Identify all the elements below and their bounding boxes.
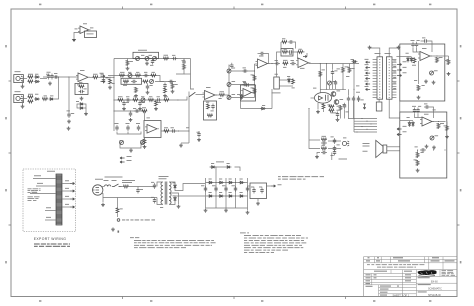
- label speck tone top row: [141, 54, 144, 57]
- export right arrow 2: [62, 190, 70, 192]
- label speck tone row2a: [128, 71, 131, 74]
- capacitor C56 dangling: [152, 59, 154, 65]
- resistor R8: [109, 79, 112, 85]
- wire row input bus: [43, 76, 69, 78]
- PA caps C33: [353, 96, 355, 102]
- resistor R55 below tube: [329, 109, 335, 112]
- ground rect rail3: [224, 209, 228, 213]
- capacitor C58 below row4: [123, 101, 125, 107]
- speaker network wires: [309, 139, 320, 141]
- filter cap C53: [247, 186, 249, 192]
- capacitor C17: [171, 130, 177, 132]
- pot VR11 (ch level 3): [227, 96, 231, 100]
- rect bottom wire: [206, 207, 248, 209]
- diode D10 on drive wire: [352, 61, 358, 63]
- diode D9 relay: [288, 78, 290, 84]
- resistor R38: [321, 138, 327, 141]
- relay label AL-990: [272, 92, 281, 95]
- label speck right lower: [407, 116, 410, 119]
- wire U2A output row: [161, 130, 189, 132]
- diode D15: [174, 184, 176, 190]
- diode D16: [174, 196, 176, 202]
- resistor R14: [123, 80, 129, 83]
- capacitor C4: [68, 112, 70, 118]
- export wiring subtitle line 1: [34, 244, 40, 245]
- capacitor C42: [423, 40, 429, 42]
- capacitor C46 on box top: [420, 149, 426, 151]
- filter box cap C54: [253, 188, 255, 194]
- wire J2 row joins input bus: [55, 77, 59, 99]
- resistor R30: [283, 62, 289, 65]
- connector CN2 pins: [389, 59, 390, 60]
- ground in lower box: [416, 169, 420, 173]
- capacitor C57 dangling: [147, 84, 149, 90]
- pot VR1: [136, 57, 140, 61]
- resistor R17 vertical: [164, 88, 167, 94]
- resistor R45: [446, 125, 449, 131]
- label speck U5 U6 row: [275, 59, 278, 62]
- fuse F1: [105, 185, 111, 187]
- diode D12: [411, 57, 413, 63]
- PA output bundle wire 2: [354, 120, 377, 122]
- resistor R3: [28, 96, 34, 99]
- channel arrows B: [101, 81, 106, 83]
- capacitor C22 in U3 box: [212, 104, 214, 110]
- level pot bus vertical: [228, 65, 230, 100]
- upper module arrows: [397, 63, 402, 65]
- diode D17: [210, 166, 216, 168]
- ground below R8: [108, 86, 112, 90]
- capacitor C29: [290, 63, 296, 65]
- op-amp U2A box: [144, 121, 161, 138]
- ground for J2: [21, 105, 25, 109]
- PA mid row wire: [320, 88, 346, 90]
- capacitor C10: [131, 81, 137, 83]
- filter cap C49: [205, 186, 207, 192]
- resistor R27: [219, 94, 225, 97]
- capacitor C15 vertical: [130, 111, 132, 117]
- node junction at C4 branch: [68, 76, 69, 77]
- diode D11: [407, 57, 409, 63]
- diode D13: [409, 121, 411, 127]
- capacitor C21 vertical: [138, 125, 140, 131]
- internal speaker label line2: [363, 145, 370, 148]
- resistor R56 upper feedback: [282, 41, 288, 44]
- title block revision table lines: [364, 257, 457, 270]
- capacitor C2: [51, 74, 53, 80]
- T1 secondary wires: [169, 182, 175, 184]
- wire caps to opamp: [413, 48, 420, 52]
- capacitor C26 on U4 box: [245, 84, 251, 86]
- op-amp U6: [298, 58, 309, 68]
- channel arrows A: [101, 75, 106, 77]
- wire input bus to U1: [69, 76, 78, 78]
- resistor R46 lower box: [416, 152, 419, 158]
- mute line wire: [241, 108, 273, 110]
- wire to level pots bus: [225, 94, 229, 96]
- capacitor C47: [154, 183, 156, 189]
- supply note text: [278, 175, 281, 178]
- AC inlet prongs: [93, 188, 100, 193]
- capacitor C64 upper feedback: [288, 41, 294, 43]
- internal speaker label line3: [363, 150, 368, 153]
- resistor R21: [164, 99, 170, 102]
- export wiring left stub 3: [30, 193, 56, 195]
- capacitor C18 vertical: [198, 132, 200, 138]
- pot VR2: [145, 57, 149, 61]
- pot VR5: [150, 80, 154, 84]
- resistor R44: [437, 123, 440, 129]
- company logo: [418, 270, 437, 275]
- resistor R28 on bus: [253, 75, 256, 81]
- power transformer T1 windings: [161, 182, 163, 186]
- ground below VR2: [145, 62, 149, 66]
- channel switch SW1: [190, 93, 196, 97]
- resistor R33 relay: [292, 79, 295, 85]
- ground below filter box: [257, 199, 259, 202]
- ground AC inlet: [102, 198, 104, 203]
- export right arrow 4: [62, 206, 70, 208]
- capacitor C1: [48, 74, 50, 80]
- right level bus: [254, 64, 256, 98]
- psu bottom note: [122, 219, 125, 222]
- label speck right upper: [406, 52, 409, 55]
- svg-text:SPS2AB-00: SPS2AB-00: [428, 294, 441, 297]
- PA output bundle wire 5: [354, 128, 377, 130]
- ground below C18: [197, 138, 201, 142]
- resistor R19: [133, 99, 139, 102]
- diode D21: [228, 182, 234, 184]
- resistor R48 (inrush): [123, 185, 129, 188]
- resistor R47 lower box: [416, 160, 419, 166]
- connector CN1 pins: [379, 59, 380, 60]
- line out label: [339, 158, 348, 161]
- PA left bus: [319, 64, 321, 93]
- feedback box U1A: [75, 84, 88, 95]
- connector CN2 label: [385, 52, 391, 55]
- row2 jog wire: [157, 76, 164, 82]
- diode D14: [412, 121, 414, 127]
- capacitor C30 in box: [288, 51, 294, 53]
- power transformer label: [159, 175, 169, 178]
- input jack J2: [14, 95, 24, 103]
- resistor R1: [28, 76, 34, 79]
- connector CN1 pin stubs: [373, 59, 377, 61]
- power down-arrow near CN1: [363, 104, 366, 109]
- capacitor C14: [156, 99, 162, 101]
- resistor R25 in U3 box: [207, 104, 210, 110]
- neutral drop resistor R53: [117, 198, 119, 208]
- diode D25: [228, 195, 234, 197]
- capacitor C11 vertical: [164, 83, 166, 89]
- export right arrow 3: [62, 198, 70, 200]
- notes text block right: [240, 232, 246, 235]
- op-amp U5: [258, 59, 268, 68]
- filter box cap C55: [261, 188, 263, 194]
- resistor R13: [151, 74, 157, 77]
- diode D3: [34, 98, 40, 100]
- capacitor C37 col: [334, 138, 336, 144]
- capacitor C48: [154, 198, 156, 204]
- rect rail 3: [225, 178, 227, 208]
- row5 wire: [114, 110, 144, 112]
- resistor R9: [163, 57, 169, 60]
- resistor R5: [42, 98, 48, 101]
- resistor R34 on PA bus: [319, 71, 322, 77]
- label speck U3 area: [206, 101, 209, 104]
- resistor R35: [342, 67, 345, 73]
- mute to lineout vertical wire: [308, 109, 310, 141]
- diode D23: [208, 195, 214, 197]
- emitter resistor R37: [339, 105, 342, 111]
- design unit row: [418, 276, 430, 279]
- power line labels: [122, 179, 135, 182]
- export wiring left stub 2: [36, 185, 56, 187]
- capacitor C6: [103, 78, 105, 84]
- diode D4: [49, 98, 55, 100]
- row4 wire: [114, 99, 178, 101]
- capacitor C19 vertical: [116, 125, 118, 131]
- relay wires: [276, 64, 278, 78]
- export transformer T2 hatched bar: [56, 174, 62, 225]
- bias trimmer VR12: [328, 81, 332, 85]
- connector CN1 label: [375, 52, 381, 55]
- ground 2 below VR13: [432, 81, 436, 85]
- export wiring text block 1: [28, 188, 32, 191]
- pot VR10 (ch level 2): [227, 83, 231, 87]
- label speck footswitch: [75, 28, 78, 31]
- capacitor C40: [412, 42, 414, 48]
- diode D7 in U4 box: [241, 94, 243, 100]
- U5 feedback capacitor C27: [259, 53, 265, 55]
- rect rail 1: [205, 178, 207, 208]
- diode D2: [34, 81, 40, 83]
- bias feed wire: [326, 64, 328, 90]
- connector CN1 body: [377, 57, 383, 99]
- capacitor C20 vertical: [127, 125, 129, 131]
- op-amp U10 (footswitch buffer): [80, 26, 89, 34]
- pot VR4: [128, 74, 132, 78]
- MOV capacitor C62: [137, 188, 139, 194]
- bias label: [331, 112, 337, 115]
- label speck speaker net: [322, 144, 325, 147]
- power transformer T1 core: [165, 182, 167, 205]
- wire bus to U5: [255, 63, 258, 65]
- PA output bundle wire 6: [354, 131, 377, 133]
- ground below R42: [447, 72, 451, 76]
- capacitor C38 col: [334, 146, 336, 152]
- connector CN2 pin stubs: [392, 59, 396, 61]
- wire U7 lower: [418, 61, 420, 84]
- capacitor C45: [424, 106, 430, 108]
- wire drop to switch: [176, 70, 184, 74]
- title row: [418, 283, 431, 286]
- wire branch down to C4: [68, 77, 70, 112]
- ground below VR14: [425, 145, 429, 149]
- ground below R23: [143, 145, 147, 149]
- wire U3 output: [215, 94, 219, 96]
- node at row6: [178, 130, 179, 131]
- ground below C1: [48, 82, 52, 86]
- PA output bundle wire 1: [348, 118, 377, 120]
- wire to C1: [40, 78, 47, 80]
- speaker LS1 coil: [383, 145, 387, 153]
- resistor R11: [119, 74, 125, 77]
- AC inlet wires: [102, 186, 105, 188]
- wire J2 to R3: [23, 98, 28, 100]
- export wiring left stub 1: [33, 178, 56, 180]
- transistor Q1: [331, 92, 336, 97]
- pot VR9 (ch level 1): [227, 69, 231, 73]
- input jack J1 label: [15, 70, 21, 73]
- U4 summing box: [241, 85, 256, 101]
- row2 wire: [108, 75, 157, 77]
- PA caps C34: [358, 96, 360, 102]
- capacitor C12: [168, 81, 174, 83]
- FX cluster wires: [117, 132, 141, 135]
- upper right module box: [400, 44, 445, 101]
- resistor R6 in U1A feedback: [79, 85, 85, 88]
- label speck relay: [275, 73, 278, 76]
- wire to transformer top: [129, 186, 156, 188]
- rect rail 2: [215, 167, 217, 209]
- rect grid dots: [215, 182, 216, 183]
- label speck U2 area: [133, 107, 136, 110]
- label speck U1 box: [77, 84, 80, 87]
- ground below R17: [163, 94, 167, 98]
- ground below R45: [445, 135, 449, 139]
- PA output bundle wire 4: [354, 126, 377, 128]
- label speck tone row4: [126, 95, 129, 98]
- PA bus right vertical: [353, 64, 355, 97]
- label speck level pots: [243, 67, 246, 70]
- ground FX cluster: [129, 149, 133, 153]
- resistor R4: [28, 100, 34, 103]
- wire U8 output: [432, 121, 446, 123]
- op-amp U8: [422, 117, 432, 126]
- isolated ground mid-left: [67, 127, 71, 131]
- lower module arrows: [397, 128, 402, 130]
- company address text: [442, 269, 447, 272]
- wire into U8: [400, 120, 413, 122]
- export wiring text block 2: [28, 196, 33, 199]
- pot VR7 diagonal: [120, 141, 124, 145]
- svg-text:EXPORT WIRING: EXPORT WIRING: [34, 237, 67, 241]
- rect top branch wire: [210, 166, 217, 168]
- capacitor C8: [183, 59, 185, 65]
- capacitor C3: [53, 76, 59, 78]
- row3 box outline: [121, 78, 142, 84]
- ground speaker net: [315, 155, 319, 159]
- resistor R49 dangling: [126, 60, 129, 66]
- resistor R12: [135, 74, 141, 77]
- ground rect rail1: [204, 209, 208, 213]
- op-amp U2A: [147, 125, 157, 134]
- wire U1A output: [88, 76, 93, 78]
- input jack J1: [14, 75, 24, 83]
- ground below VR13: [424, 80, 428, 84]
- secondary wires to rectifier: [175, 184, 205, 191]
- ground below R43: [417, 96, 421, 100]
- tone row wire: [155, 81, 176, 83]
- diode D19: [208, 182, 214, 184]
- ground 2 below VR14: [432, 146, 436, 150]
- resistor R41: [436, 57, 439, 63]
- rect rail 4: [235, 178, 237, 208]
- resistor R36 below tube: [322, 104, 325, 110]
- wire U5 out: [268, 63, 275, 65]
- svg-text:SCHEMATIC: SCHEMATIC: [428, 287, 442, 290]
- lower right module box: [400, 112, 447, 178]
- internal speaker label line1: [363, 142, 370, 145]
- heater stub arrows: [120, 157, 125, 159]
- left vertical bus wire: [113, 59, 115, 132]
- gain box outline: [133, 52, 159, 58]
- jog and ground at x189 bottom: [181, 142, 189, 144]
- AC inlet P1 body: [93, 185, 103, 195]
- pot VR6: [141, 98, 145, 102]
- input jack J2 label: [15, 90, 21, 93]
- ground below C4: [67, 120, 71, 124]
- proprietary notice text: [367, 263, 370, 266]
- capacitor C31: [335, 80, 337, 86]
- export wiring dashed box: [23, 169, 76, 232]
- footswitch box SW10: [85, 31, 97, 38]
- speaker wires to right: [387, 146, 400, 148]
- capacitor C43: [414, 108, 416, 114]
- pot VR3: [153, 57, 157, 61]
- filter cap C50: [215, 186, 217, 192]
- label speck transformer: [151, 181, 154, 184]
- U3 feedback box: [204, 101, 217, 120]
- resistor R24: [164, 130, 170, 133]
- wire U7 output: [430, 55, 444, 57]
- resistor R43: [417, 85, 420, 91]
- capacitor C9: [143, 75, 149, 77]
- wire J1 to R1: [23, 78, 28, 80]
- PA bundle vertical join: [353, 96, 355, 132]
- ground below R16: [134, 94, 138, 98]
- power arrow symbol +V: [303, 56, 307, 58]
- connector lower box: [376, 102, 382, 111]
- wire caps to U8: [415, 114, 423, 118]
- resistor R7: [93, 76, 99, 79]
- wire CN2 to U7 input: [396, 56, 411, 58]
- CN1 ground wire up: [370, 48, 380, 57]
- resistor R39: [321, 147, 327, 150]
- resistor R54 below tube: [329, 105, 335, 108]
- legend ground symbol with numeral: [111, 228, 115, 232]
- drawing number row: [418, 291, 427, 294]
- wire to C6: [99, 76, 115, 78]
- notes text block left: [130, 236, 134, 239]
- resistor R51 below row4: [155, 101, 158, 107]
- pot VR8 diagonal: [141, 141, 145, 145]
- scale size fscm cells: [404, 270, 412, 273]
- resistor R2: [28, 80, 34, 83]
- filter cap C52: [235, 186, 237, 192]
- export wiring left stub 4: [45, 210, 56, 212]
- main drive wire U6 to PA: [309, 63, 360, 65]
- capacitor C13: [125, 99, 131, 101]
- rect rail 5: [247, 178, 249, 210]
- label speck PA area: [313, 87, 316, 90]
- top row wire: [114, 58, 191, 60]
- svg-text:SHEET 1 OF 1: SHEET 1 OF 1: [393, 294, 410, 297]
- capacitor C16: [134, 110, 140, 112]
- op-amp U3: [205, 91, 216, 100]
- resistor R16 vertical: [135, 87, 138, 93]
